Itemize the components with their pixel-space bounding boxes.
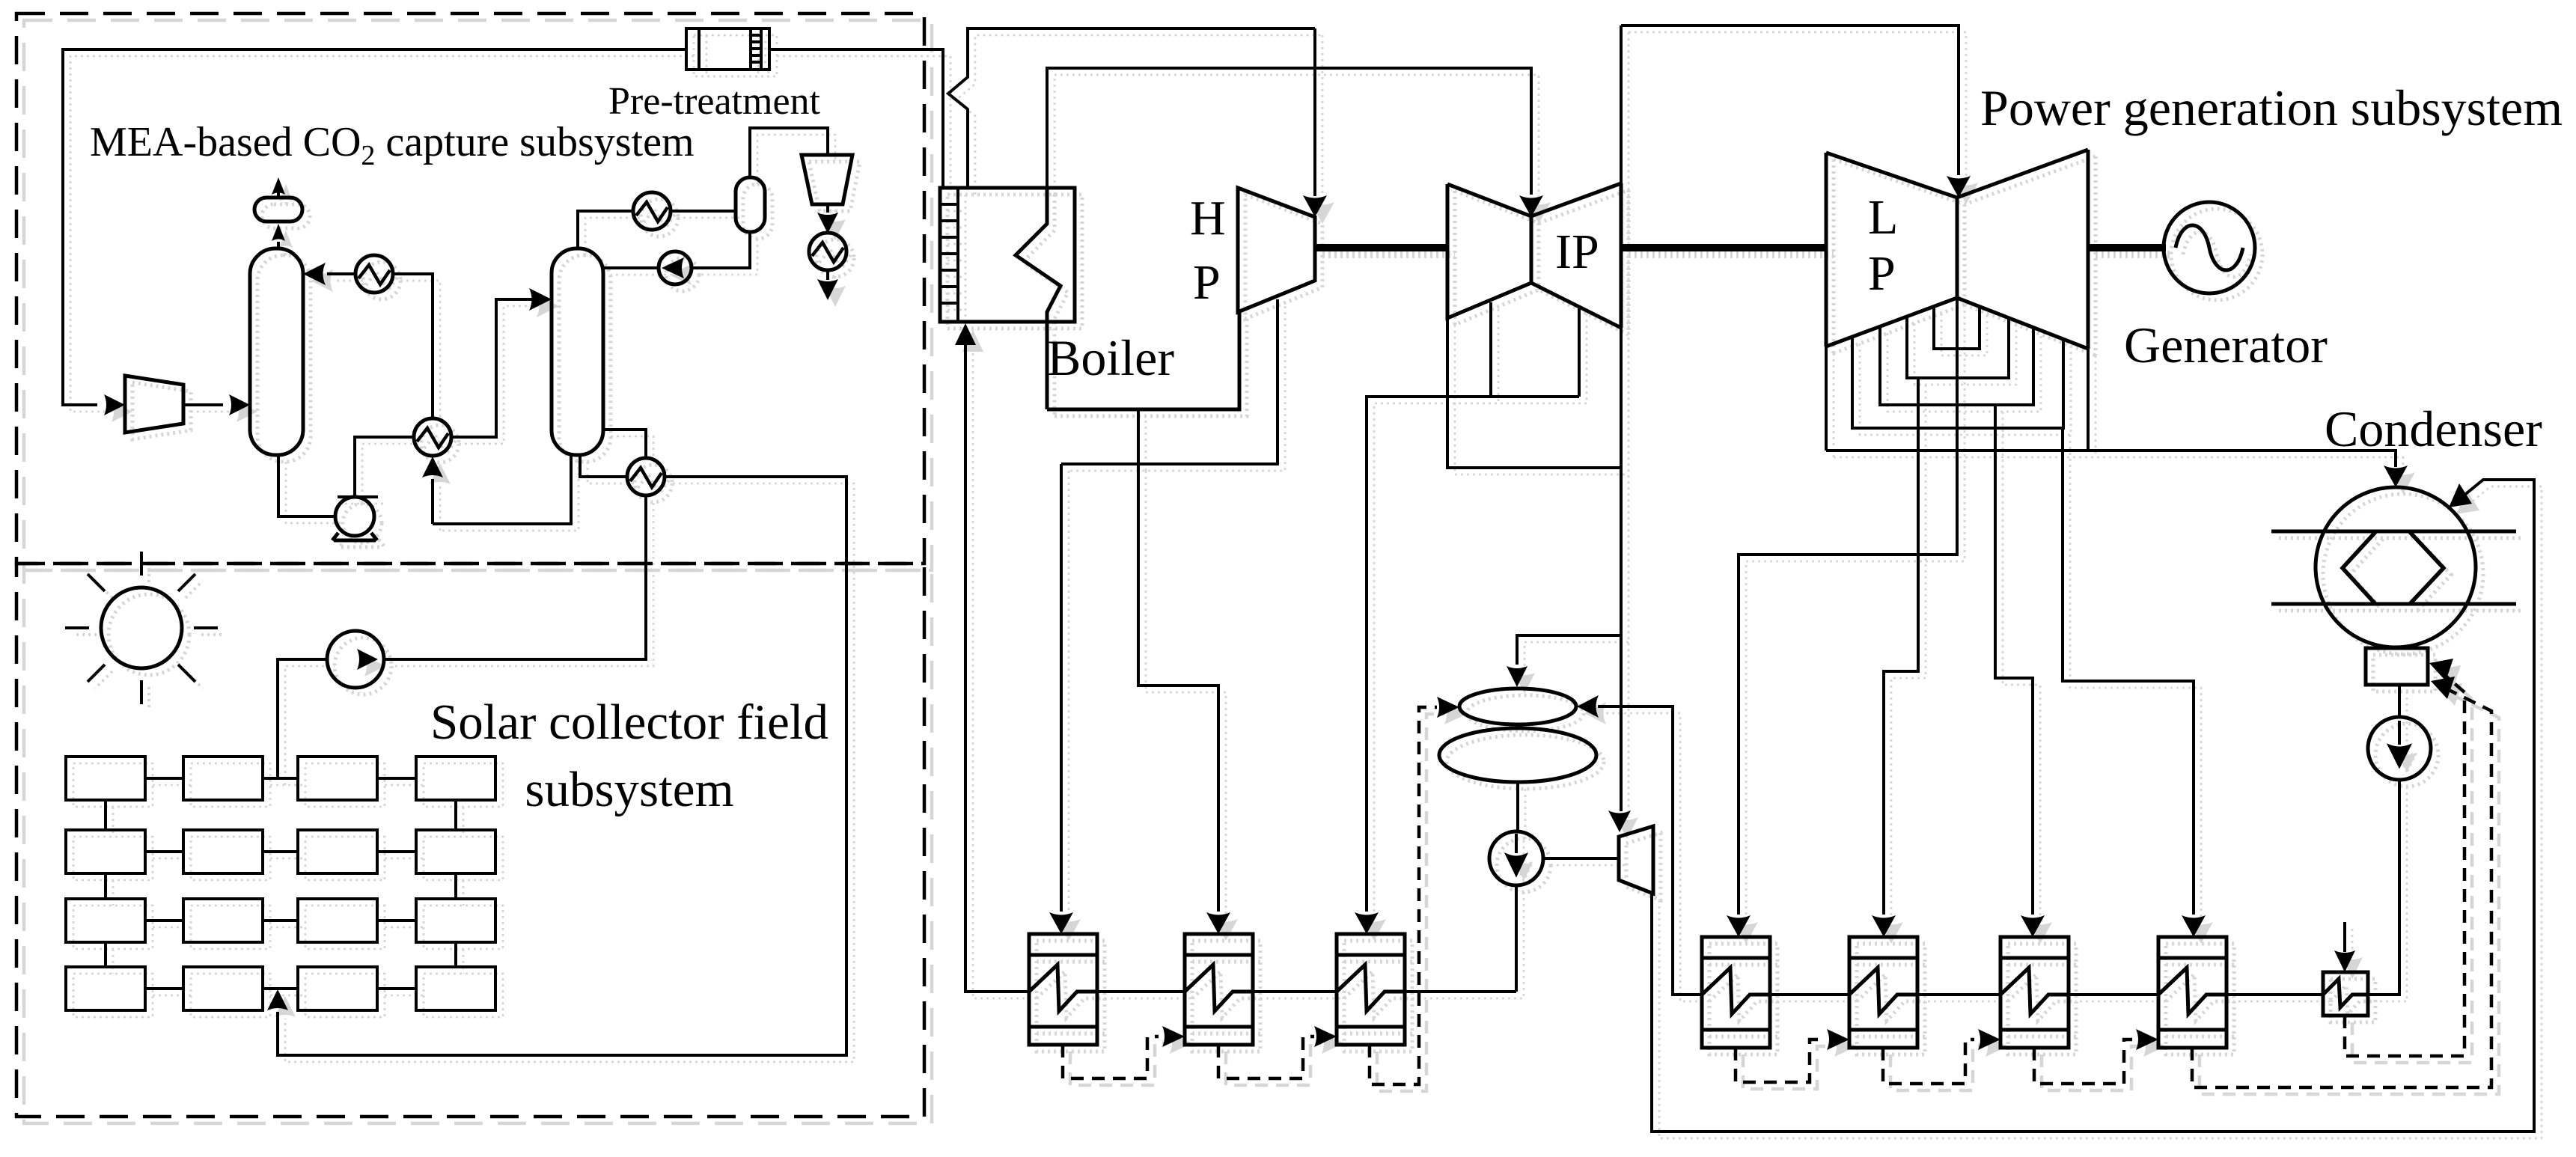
svg-text:Pre-treatment: Pre-treatment: [608, 80, 821, 123]
svg-text:Condenser: Condenser: [2325, 400, 2542, 457]
svg-text:H: H: [1190, 191, 1226, 245]
svg-text:IP: IP: [1555, 225, 1599, 279]
svg-text:Generator: Generator: [2124, 317, 2328, 373]
svg-text:P: P: [1868, 246, 1896, 301]
svg-text:Power generation subsystem: Power generation subsystem: [1980, 79, 2563, 136]
svg-text:P: P: [1193, 255, 1221, 310]
svg-text:MEA-based CO2 capture subsyste: MEA-based CO2 capture subsystem: [90, 119, 695, 171]
svg-text:subsystem: subsystem: [525, 762, 733, 817]
svg-text:Solar collector field: Solar collector field: [430, 694, 828, 750]
svg-text:Boiler: Boiler: [1047, 329, 1174, 386]
svg-text:L: L: [1868, 190, 1898, 245]
